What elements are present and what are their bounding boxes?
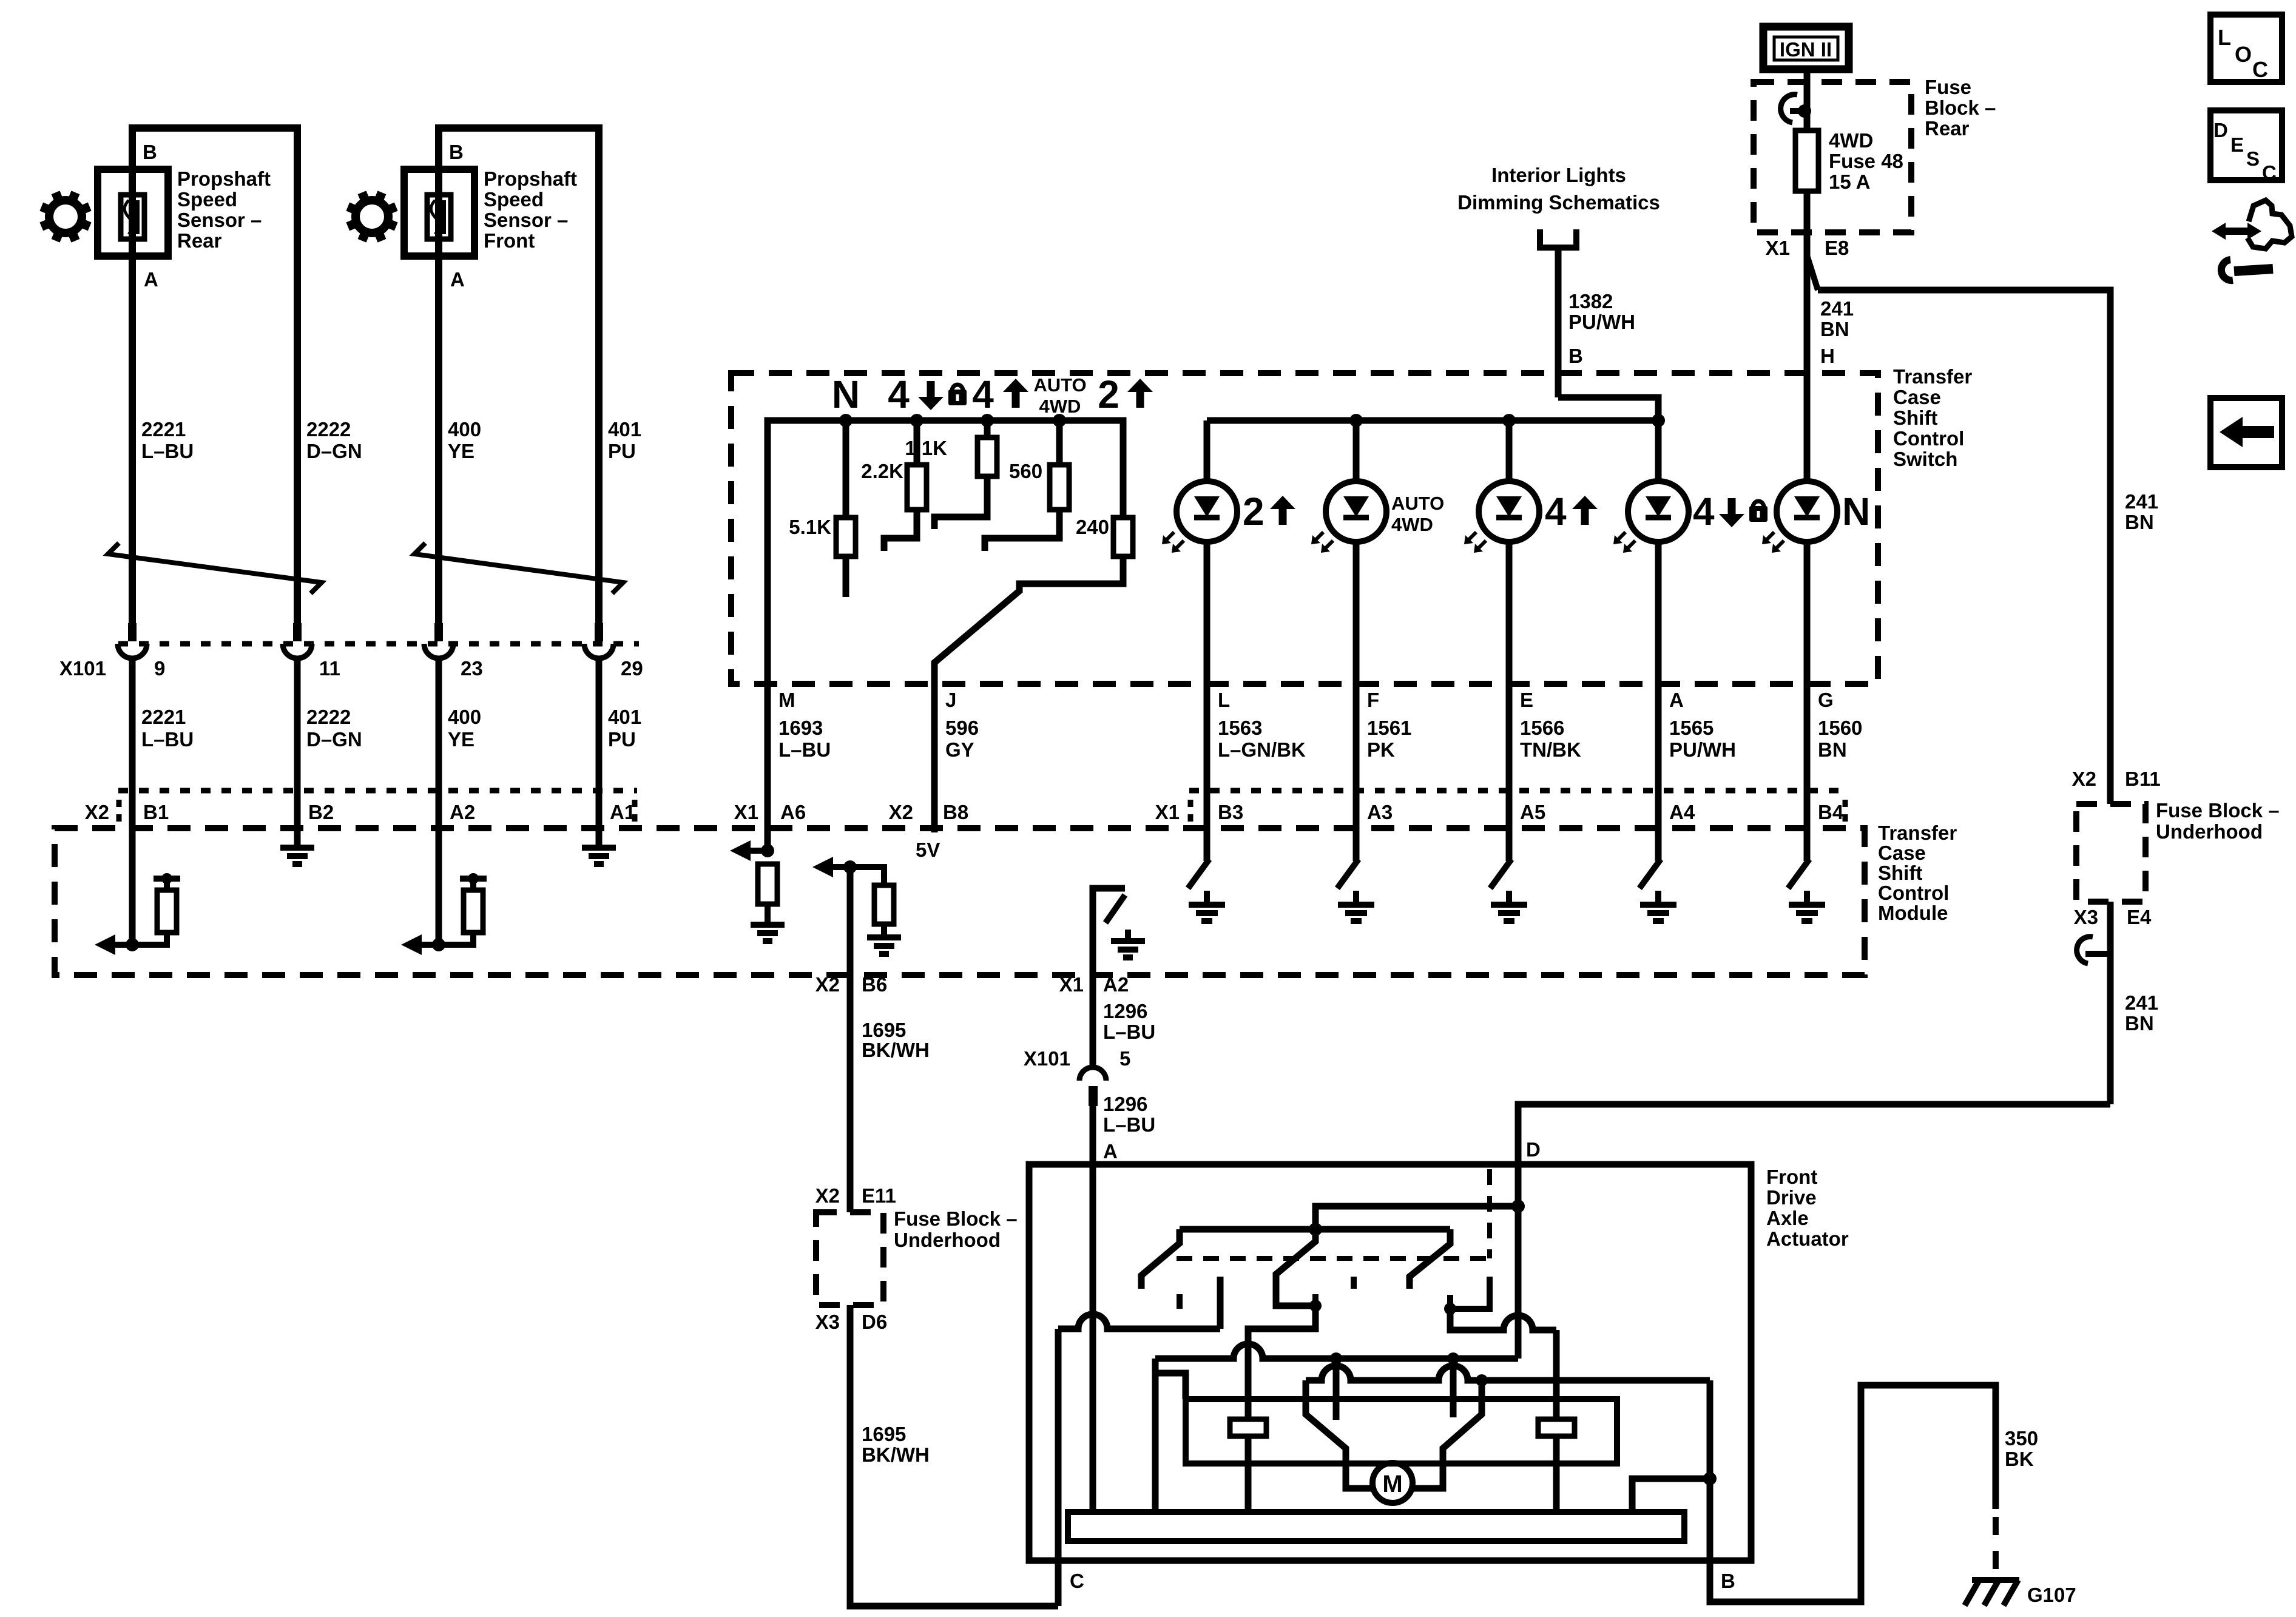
svg-text:X2: X2: [815, 1184, 840, 1207]
svg-text:560: 560: [1009, 460, 1042, 482]
wire B3 in module: [1204, 791, 1210, 861]
svg-text:X2: X2: [2072, 768, 2096, 790]
node switch common: [1309, 1223, 1322, 1236]
svg-text:J: J: [945, 689, 956, 711]
svg-text:A: A: [144, 268, 158, 291]
svg-text:Interior Lights: Interior Lights: [1491, 164, 1626, 186]
svg-text:TN/BK: TN/BK: [1520, 738, 1581, 761]
svg-text:L–BU: L–BU: [141, 728, 194, 751]
node LED bus F: [1349, 414, 1363, 427]
svg-text:2: 2: [1243, 490, 1264, 533]
connector X101 row: [118, 641, 639, 647]
svg-text:D: D: [1526, 1138, 1541, 1161]
svg-text:Transfer: Transfer: [1878, 822, 1957, 844]
svg-text:241: 241: [2125, 490, 2158, 513]
wire A1 to ground: [596, 791, 603, 848]
wire: [436, 657, 442, 791]
wire pin A: [1655, 684, 1662, 791]
svg-text:X1: X1: [734, 801, 758, 823]
transfer case shift control switch (dashed box): [731, 373, 1878, 684]
svg-text:Fuse Block –: Fuse Block –: [894, 1207, 1018, 1230]
svg-text:X3: X3: [2074, 906, 2098, 928]
svg-text:E8: E8: [1825, 237, 1849, 259]
svg-text:23: 23: [461, 657, 483, 680]
svg-text:X101: X101: [1024, 1047, 1070, 1070]
svg-text:1695: 1695: [862, 1019, 906, 1041]
icon back arrow: [2210, 398, 2282, 467]
terminal hook (fuse feed): [1781, 95, 1797, 123]
svg-text:GY: GY: [945, 738, 974, 761]
wire to ground: [881, 924, 887, 937]
ground (A4): [1640, 902, 1676, 908]
wire to LED L: [1204, 420, 1210, 482]
svg-text:2221: 2221: [141, 706, 186, 728]
svg-text:Transfer: Transfer: [1893, 365, 1972, 388]
svg-text:X1: X1: [1766, 237, 1790, 259]
wire B1 into module: [129, 791, 136, 945]
svg-text:X2: X2: [815, 973, 840, 996]
svg-text:4: 4: [972, 373, 994, 416]
wire 241 BN (H feed): [1804, 191, 1811, 373]
svg-text:4: 4: [888, 373, 910, 416]
svg-text:BN: BN: [1820, 318, 1849, 340]
wire to pull-up resistor (A2): [439, 933, 473, 945]
svg-text:D–GN: D–GN: [306, 440, 362, 462]
svg-text:1382: 1382: [1568, 290, 1613, 312]
svg-text:C: C: [2252, 57, 2268, 82]
X101 terminal 11: [293, 623, 302, 641]
ground (A3): [1338, 902, 1374, 908]
svg-text:E: E: [1520, 689, 1533, 711]
svg-text:AUTO: AUTO: [1033, 374, 1086, 396]
svg-text:Case: Case: [1893, 386, 1941, 408]
switch blade (A4): [1639, 859, 1661, 888]
svg-text:M: M: [1382, 1471, 1402, 1497]
wire: [129, 657, 136, 791]
wire 350 BK (dashed to ground): [1993, 1517, 1999, 1573]
node fuse feed: [1798, 104, 1811, 118]
svg-text:Sensor –: Sensor –: [484, 209, 568, 231]
svg-text:Case: Case: [1878, 842, 1926, 864]
svg-text:O: O: [2235, 42, 2252, 67]
node A2 junction: [432, 938, 445, 951]
wire 1296 L-BU: [1090, 975, 1096, 1069]
wire B2 to ground: [294, 791, 301, 848]
wire 1296 L-BU (lower): [1090, 1106, 1096, 1164]
contact tick (sw1): [1177, 1294, 1183, 1309]
wire to LED E: [1506, 420, 1513, 482]
X1 row tick (left): [1188, 800, 1194, 826]
svg-text:Underhood: Underhood: [2156, 820, 2263, 843]
svg-text:N: N: [832, 373, 860, 416]
svg-text:X1: X1: [1059, 973, 1084, 996]
svg-text:4: 4: [1693, 490, 1715, 533]
resistor 560 branch (auto 4wd): [1056, 420, 1063, 465]
svg-text:F: F: [1367, 689, 1379, 711]
svg-text:Shift: Shift: [1893, 407, 1937, 429]
node H3 tap 1: [1330, 1352, 1342, 1365]
funnel right to motor: [1413, 1380, 1482, 1488]
wire to ground: [1204, 891, 1210, 905]
LED supply bus: [1207, 417, 1658, 424]
svg-text:Speed: Speed: [177, 188, 237, 211]
ground G107: [1972, 1577, 2019, 1583]
fuse block - underhood (dashed box, left): [816, 1212, 883, 1305]
svg-text:400: 400: [448, 418, 481, 441]
node 4-up tap: [981, 414, 994, 427]
svg-text:B: B: [1568, 345, 1583, 367]
svg-text:L: L: [1218, 689, 1230, 711]
wire to ground: [1655, 891, 1661, 905]
svg-text:N: N: [1842, 490, 1870, 533]
node blade2 out: [1309, 1300, 1322, 1312]
switch blade (A3): [1337, 859, 1359, 888]
svg-text:1.1K: 1.1K: [905, 437, 947, 459]
switch blade (B4): [1788, 859, 1809, 888]
svg-text:15 A: 15 A: [1829, 170, 1870, 193]
svg-text:D–GN: D–GN: [306, 728, 362, 751]
splice bar: [460, 876, 487, 882]
svg-text:A6: A6: [780, 801, 806, 823]
terminal hook (E4): [2077, 937, 2093, 964]
wire pin F: [1353, 684, 1360, 791]
wire LED E to pin: [1506, 541, 1513, 684]
front drive axle actuator (box): [1029, 1164, 1751, 1561]
svg-text:350: 350: [2005, 1427, 2038, 1450]
svg-text:Block –: Block –: [1925, 96, 1996, 119]
node sw3 contact: [1444, 1303, 1456, 1315]
svg-text:Fuse: Fuse: [1925, 76, 1971, 98]
signal arrow line (A2): [422, 942, 439, 948]
wire A5 in module: [1506, 791, 1513, 861]
LED indicator (N): [1777, 481, 1837, 542]
svg-text:1296: 1296: [1103, 1000, 1147, 1022]
svg-text:1695: 1695: [862, 1423, 906, 1445]
svg-text:B: B: [1721, 1570, 1735, 1592]
svg-text:L: L: [2218, 25, 2231, 50]
wire B inside actuator: [1707, 1380, 1714, 1479]
svg-text:B11: B11: [2125, 768, 2161, 790]
icon DESC: [2210, 110, 2282, 180]
resistor (B1 pull-up): [157, 890, 177, 933]
wire coil1 to plate: [1245, 1436, 1252, 1512]
LED indicator (A): [1628, 481, 1689, 542]
svg-text:9: 9: [154, 657, 165, 680]
svg-text:2222: 2222: [306, 706, 351, 728]
ground (A2): [1111, 938, 1145, 944]
svg-text:Front: Front: [1766, 1166, 1817, 1188]
svg-text:BK: BK: [2005, 1448, 2034, 1470]
resistor (A2 pull-up): [464, 890, 483, 933]
wire 241 BN below fuse block: [2107, 902, 2114, 1104]
svg-text:29: 29: [621, 657, 643, 680]
ground (A5): [1491, 902, 1527, 908]
svg-text:PU: PU: [608, 440, 636, 462]
svg-text:BK/WH: BK/WH: [862, 1443, 930, 1466]
resistor (B6): [874, 885, 894, 924]
wire 1695 BK/WH to actuator C: [850, 1305, 1058, 1606]
svg-text:PU/WH: PU/WH: [1568, 311, 1635, 333]
wire to LED F: [1353, 420, 1360, 482]
ground (A6): [751, 922, 785, 928]
svg-text:Rear: Rear: [177, 229, 222, 252]
node LED bus E: [1502, 414, 1516, 427]
wire B / 350 BK to ground: [1710, 1385, 1996, 1602]
wire D to bar drop (hops coil1 wire): [1155, 1344, 1518, 1359]
svg-text:Front: Front: [484, 229, 535, 252]
svg-text:4WD: 4WD: [1039, 396, 1081, 417]
svg-text:4WD: 4WD: [1829, 129, 1873, 152]
svg-text:Module: Module: [1878, 902, 1948, 924]
icon LOC: [2210, 15, 2282, 82]
contact stub (sw2): [1312, 1294, 1319, 1306]
X2 row tick (right): [632, 800, 638, 826]
svg-text:B3: B3: [1218, 801, 1243, 823]
svg-text:X1: X1: [1155, 801, 1180, 823]
svg-text:G107: G107: [2027, 1584, 2076, 1606]
node B junction: [1703, 1472, 1717, 1485]
gear icon (Rear sensor): [49, 200, 82, 233]
wire D down: [1515, 1206, 1522, 1359]
svg-text:L–GN/BK: L–GN/BK: [1218, 738, 1306, 761]
svg-text:401: 401: [608, 706, 641, 728]
svg-text:1563: 1563: [1218, 717, 1262, 739]
svg-text:Rear: Rear: [1925, 117, 1970, 140]
svg-text:1566: 1566: [1520, 717, 1564, 739]
svg-text:B4: B4: [1818, 801, 1844, 823]
funnel left to motor: [1306, 1380, 1374, 1488]
svg-text:Actuator: Actuator: [1766, 1227, 1849, 1250]
contact plate (bar): [1068, 1512, 1684, 1541]
svg-text:YE: YE: [448, 728, 474, 751]
svg-text:B6: B6: [862, 973, 887, 996]
wire LED N to pin: [1804, 541, 1811, 684]
icon adjust/hand with wrench: [2212, 223, 2261, 240]
svg-text:400: 400: [448, 706, 481, 728]
sensor Rear body box: [98, 169, 168, 256]
wire LED F to pin: [1353, 541, 1360, 684]
splice dot: [161, 873, 172, 884]
svg-text:241: 241: [2125, 991, 2158, 1014]
svg-text:B2: B2: [308, 801, 334, 823]
wire from IGN II: [1804, 70, 1811, 82]
node funnel right tap: [1476, 1374, 1488, 1386]
wire pin G: [1804, 684, 1811, 791]
twisted pair symbol (Rear sensor wires): [108, 543, 322, 593]
node N tap: [839, 414, 853, 427]
wire: [596, 657, 603, 791]
gear icon (Front sensor): [356, 200, 388, 233]
wire blade2 to coil 1: [1248, 1306, 1315, 1419]
svg-text:BK/WH: BK/WH: [862, 1039, 930, 1061]
switch common bar: [1180, 1226, 1450, 1233]
svg-text:S: S: [2246, 147, 2260, 170]
twisted pair symbol (Front sensor wires): [414, 543, 623, 593]
selector bus wire: [768, 420, 1123, 684]
svg-text:241: 241: [1820, 297, 1854, 320]
wire A3 in module: [1353, 791, 1360, 861]
svg-text:C: C: [1070, 1570, 1084, 1592]
ground (B2): [280, 845, 314, 851]
svg-text:5: 5: [1119, 1047, 1130, 1070]
X101 terminal 23: [434, 623, 443, 641]
svg-text:Axle: Axle: [1766, 1207, 1809, 1229]
X101 terminal 29: [595, 623, 603, 641]
svg-text:Switch: Switch: [1893, 448, 1957, 470]
link plate-drop to contact frame: [1155, 1373, 1186, 1399]
svg-text:B8: B8: [943, 801, 968, 823]
propshaft speed sensor - Front: wire loop: [439, 128, 599, 624]
svg-text:Drive: Drive: [1766, 1186, 1817, 1209]
wire to ground: [1353, 891, 1359, 905]
wire LED A to pin: [1655, 541, 1662, 684]
switch blade (A5): [1490, 859, 1511, 888]
wire B4 in module: [1804, 791, 1811, 861]
power tag IGN II: [1763, 27, 1849, 69]
svg-text:A2: A2: [1103, 973, 1129, 996]
transfer case shift control module (dashed box): [55, 828, 1865, 975]
svg-text:Underhood: Underhood: [894, 1229, 1001, 1251]
wire 241 BN to underhood fuse block: [1818, 290, 2110, 804]
wire A2 into module: [436, 791, 442, 945]
svg-text:Sensor –: Sensor –: [177, 209, 262, 231]
wire D inside actuator: [1515, 1164, 1522, 1206]
node 4-down tap: [910, 414, 923, 427]
signal arrow (A6): [751, 848, 768, 854]
svg-text:240: 240: [1076, 516, 1109, 538]
contact stub (sw3): [1447, 1295, 1453, 1309]
svg-text:A2: A2: [450, 801, 475, 823]
inline connector X101-5: [1079, 1067, 1106, 1081]
svg-text:A5: A5: [1520, 801, 1545, 823]
node H3 tap 2: [1447, 1352, 1459, 1365]
wire motor row (hops risers): [1306, 1366, 1710, 1380]
resistor 1.1K branch (4 up): [984, 420, 991, 437]
fuse 48 symbol: [1795, 130, 1818, 191]
wire A inside actuator: [1090, 1164, 1096, 1512]
svg-text:2.2K: 2.2K: [861, 460, 903, 482]
svg-text:596: 596: [945, 717, 979, 739]
resistor (A6 termination): [758, 864, 777, 904]
fuse block - underhood (dashed box, right): [2076, 804, 2146, 902]
svg-text:YE: YE: [448, 440, 474, 462]
svg-text:B: B: [449, 141, 464, 163]
sensor Front body box: [404, 169, 474, 256]
svg-text:PU: PU: [608, 728, 636, 751]
off-page fork connector: [1540, 229, 1576, 248]
node B1 junction: [126, 938, 139, 951]
svg-text:E11: E11: [862, 1184, 896, 1207]
svg-text:IGN II: IGN II: [1780, 38, 1832, 61]
fuse block - rear (dashed box): [1754, 82, 1911, 232]
switch blade 1 (left): [1141, 1229, 1180, 1289]
wire to pull-up resistor (B1): [132, 933, 167, 945]
splice bar: [154, 876, 180, 882]
svg-text:BN: BN: [1818, 738, 1847, 761]
wire H inside switch box: [1804, 373, 1811, 482]
wire to coil 2: [1553, 1330, 1560, 1419]
branch jog at E8: [1808, 257, 1818, 290]
svg-text:1693: 1693: [778, 717, 823, 739]
resistor 240 branch (2 up): [1113, 518, 1133, 556]
svg-text:H: H: [1820, 345, 1835, 367]
splice dot: [468, 873, 479, 884]
wire plate to B: [1632, 1479, 1710, 1512]
LED indicator (F): [1326, 481, 1386, 542]
wire M / A6 into module: [765, 684, 771, 851]
wrench handle: [2234, 269, 2273, 271]
wire C to sw1 contact (hops A wire): [1058, 1314, 1220, 1329]
svg-text:2221: 2221: [141, 418, 186, 441]
svg-text:4WD: 4WD: [1391, 514, 1433, 535]
contact riser 1 (through hop): [1333, 1359, 1340, 1420]
propshaft speed sensor - Rear: wire loop: [132, 128, 297, 624]
svg-text:11: 11: [319, 657, 340, 680]
svg-text:A4: A4: [1669, 801, 1695, 823]
connector row X1 (module, LED pins): [1189, 788, 1848, 794]
svg-text:Speed: Speed: [484, 188, 544, 211]
node LED bus A: [1652, 414, 1665, 427]
svg-text:Control: Control: [1878, 882, 1949, 904]
svg-text:L–BU: L–BU: [1103, 1113, 1155, 1136]
svg-text:Propshaft: Propshaft: [484, 167, 577, 190]
wire: [1804, 82, 1811, 130]
switch blade (B3): [1188, 859, 1209, 888]
ground (B4): [1789, 902, 1825, 908]
ground (B3): [1189, 902, 1225, 908]
svg-text:D: D: [2213, 119, 2228, 141]
wire C: [1055, 1329, 1062, 1606]
svg-text:X2: X2: [889, 801, 913, 823]
wire to LED A: [1655, 420, 1662, 482]
wire 1695 BK/WH: [847, 867, 854, 1212]
resistor 2.2K branch (4 down): [914, 420, 920, 465]
wire coil2 to plate: [1553, 1436, 1560, 1512]
svg-text:Dimming Schematics: Dimming Schematics: [1457, 191, 1660, 214]
svg-text:L–BU: L–BU: [141, 440, 194, 462]
svg-text:Shift: Shift: [1878, 862, 1922, 884]
wire to ground: [1125, 930, 1131, 941]
svg-text:A3: A3: [1367, 801, 1393, 823]
wire 1382 PU/WH: [1555, 248, 1562, 397]
svg-text:PK: PK: [1367, 738, 1395, 761]
svg-text:1560: 1560: [1818, 717, 1862, 739]
svg-text:A: A: [450, 268, 465, 291]
svg-text:G: G: [1818, 689, 1834, 711]
svg-text:401: 401: [608, 418, 641, 441]
wire 241 BN to actuator D: [1518, 1104, 2110, 1164]
svg-text:AUTO: AUTO: [1391, 493, 1444, 514]
svg-text:A1: A1: [610, 801, 635, 823]
connector row X2 (module left): [118, 788, 637, 794]
svg-text:M: M: [778, 689, 795, 711]
svg-text:B1: B1: [143, 801, 169, 823]
switch blade 3 (right): [1410, 1229, 1450, 1289]
svg-text:E4: E4: [2127, 906, 2152, 928]
wire LED L to pin: [1204, 541, 1210, 684]
wire: [294, 657, 301, 791]
svg-text:E: E: [2230, 133, 2244, 156]
svg-text:B: B: [143, 141, 157, 163]
svg-text:Fuse Block –: Fuse Block –: [2156, 799, 2280, 822]
svg-text:BN: BN: [2125, 1012, 2154, 1035]
svg-text:2: 2: [1098, 373, 1119, 416]
svg-text:X3: X3: [815, 1311, 840, 1333]
mechanical linkage (dashed): [1177, 1256, 1490, 1261]
wire pin E: [1506, 684, 1513, 791]
node D junction: [1511, 1200, 1525, 1213]
svg-text:1561: 1561: [1367, 717, 1411, 739]
